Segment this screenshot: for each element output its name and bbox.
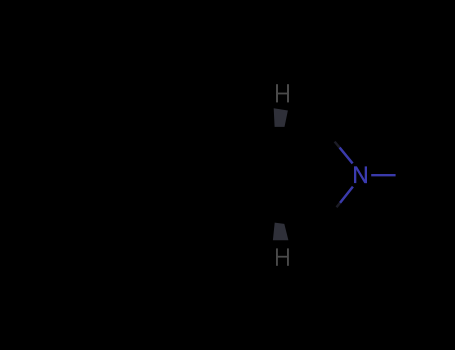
bond C3a-N (upper, N half shown in blue) [335,142,340,148]
atom N (nitrogen) [354,166,367,183]
wedge bond to bottom H (bold wedge) [273,223,289,241]
bond N-C1 (lower, N half shown in blue) [340,187,353,203]
bond N-CH3 (methyl, N half shown in blue) [371,174,395,176]
wedge bond to top H (bold wedge) [274,108,288,127]
atom H (top stereo hydrogen) [276,84,289,102]
atom H (bottom stereo hydrogen) [276,248,289,265]
